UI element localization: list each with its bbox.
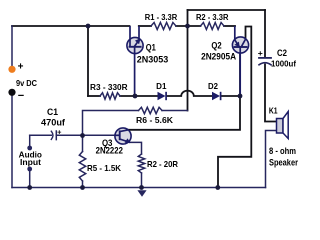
svg-text:D1: D1 (156, 81, 166, 91)
svg-text:R3 - 330R: R3 - 330R (90, 82, 128, 92)
svg-text:Speaker: Speaker (269, 157, 298, 167)
svg-text:8 - ohm: 8 - ohm (269, 146, 296, 156)
svg-text:K1: K1 (269, 106, 278, 115)
svg-text:2N3053: 2N3053 (137, 55, 169, 65)
svg-text:−: − (18, 90, 24, 102)
svg-text:+: + (258, 48, 263, 58)
svg-text:D2: D2 (208, 81, 218, 91)
svg-text:2N2222: 2N2222 (96, 146, 123, 156)
svg-text:R2 - 3.3R: R2 - 3.3R (196, 12, 229, 22)
svg-text:C1: C1 (47, 107, 58, 117)
svg-text:Input: Input (20, 157, 41, 167)
svg-text:R1 - 3.3R: R1 - 3.3R (145, 12, 178, 22)
svg-text:C2: C2 (277, 48, 287, 58)
svg-text:1000uf: 1000uf (271, 59, 296, 69)
svg-text:9v DC: 9v DC (16, 78, 37, 88)
svg-text:R5 - 1.5K: R5 - 1.5K (87, 163, 121, 173)
svg-text:R6 - 5.6K: R6 - 5.6K (136, 115, 174, 125)
svg-text:+: + (18, 62, 24, 73)
svg-text:470uf: 470uf (41, 118, 66, 128)
svg-text:2N2905A: 2N2905A (201, 52, 236, 62)
svg-text:R2 - 20R: R2 - 20R (147, 159, 178, 169)
svg-text:Q1: Q1 (146, 42, 156, 52)
svg-text:+: + (57, 127, 62, 136)
svg-text:Q2: Q2 (211, 41, 221, 51)
